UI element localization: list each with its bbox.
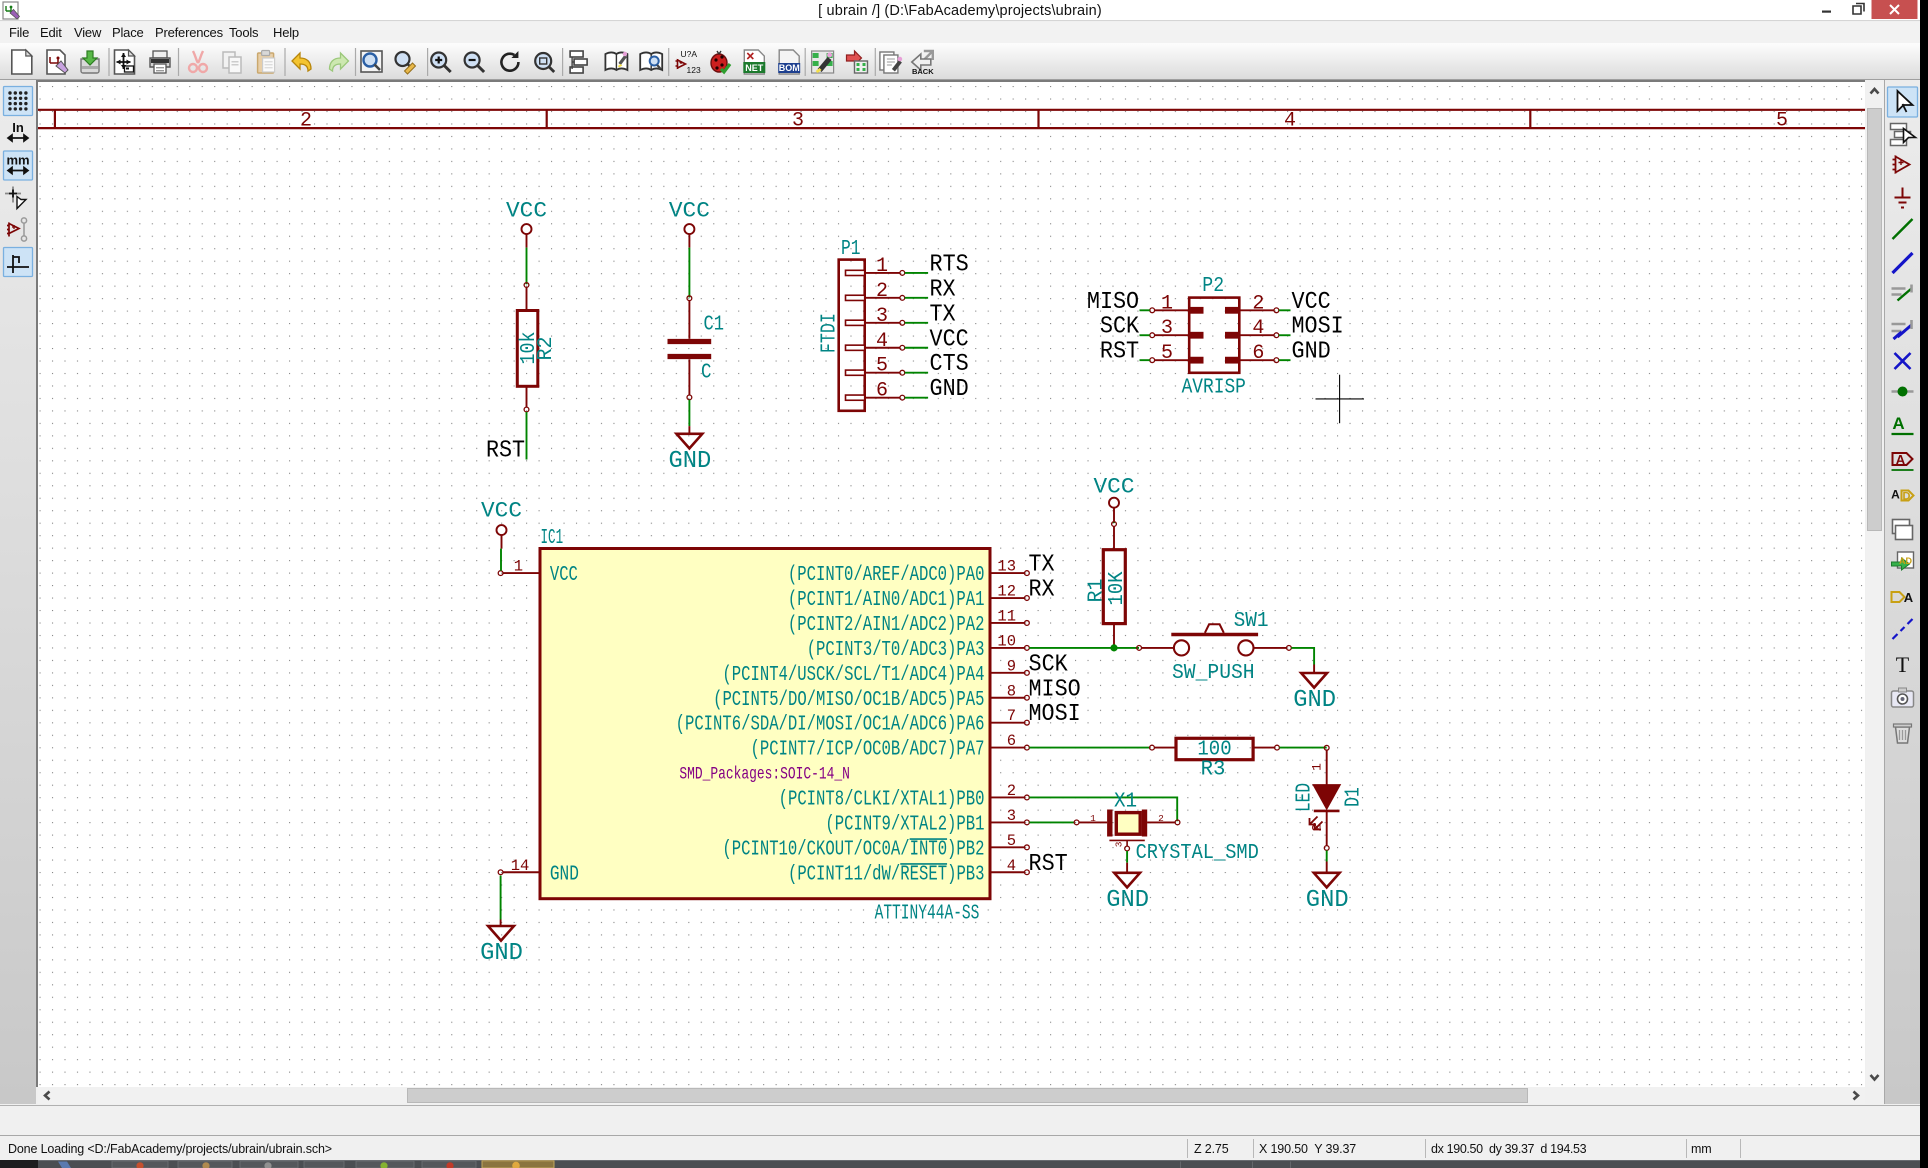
svg-text:1: 1: [514, 558, 523, 576]
svg-text:CTS: CTS: [930, 351, 969, 378]
svg-text:A: A: [1904, 590, 1914, 605]
IC U1 ATTINY44A-SS (IC1): [540, 527, 990, 925]
svg-text:VCC: VCC: [550, 564, 578, 587]
wire P2 pin 4: [1279, 334, 1291, 336]
wire R3 to LED D1: [1279, 747, 1326, 749]
IC1 pin 11: [788, 607, 1029, 637]
svg-text:LED: LED: [1294, 783, 1317, 812]
svg-text:1: 1: [876, 255, 888, 278]
ground symbol (IC1): [480, 920, 523, 968]
wire VCC to R1: [1113, 521, 1115, 523]
svg-text:VCC: VCC: [930, 326, 969, 353]
svg-text:4: 4: [1252, 317, 1264, 340]
svg-text:4: 4: [876, 330, 888, 353]
svg-text:P2: P2: [1202, 275, 1224, 298]
ruler section numbers 2 3 4 5: [300, 110, 1788, 133]
svg-text:BOM: BOM: [779, 63, 800, 73]
wire P1 pin 1: [905, 272, 928, 274]
capacitor C1: [668, 296, 725, 400]
svg-text:X1: X1: [1114, 791, 1137, 814]
junction (R1/SW1 net): [1110, 644, 1117, 651]
crystal X1 CRYSTAL_SMD: [1074, 791, 1259, 866]
wire IC1 pin 14 to GND: [500, 876, 502, 920]
svg-text:NET: NET: [745, 63, 764, 73]
svg-text:2: 2: [1007, 782, 1016, 800]
svg-text:SCK: SCK: [1029, 651, 1068, 678]
IC1 pin 6: [751, 732, 1030, 762]
power symbol VCC (at R2): [506, 198, 547, 248]
IC1 pin 1 VCC: [498, 558, 578, 588]
svg-text:MISO: MISO: [1087, 289, 1139, 316]
svg-text:6: 6: [1007, 732, 1016, 750]
IC1 pin 7: [676, 707, 1030, 737]
wire P2 pin 1: [1140, 309, 1150, 311]
svg-text:5: 5: [1776, 110, 1788, 133]
IC1 pin 5: [722, 832, 1029, 862]
resistor R1 10K: [1086, 522, 1129, 648]
wire P2 pin 2: [1279, 309, 1291, 311]
svg-text:AD: AD: [1899, 556, 1912, 566]
IC1 pin 4: [788, 857, 1029, 887]
ground symbol (C1): [669, 426, 712, 475]
svg-text:12: 12: [997, 583, 1016, 601]
svg-text:TX: TX: [1029, 552, 1055, 579]
svg-text:D: D: [1903, 491, 1911, 503]
power symbol VCC (at IC1): [481, 498, 522, 549]
svg-text:14: 14: [511, 857, 530, 875]
svg-text:MOSI: MOSI: [1029, 701, 1081, 728]
svg-text:9: 9: [1007, 657, 1016, 675]
wire IC1 pin 6 to R3: [1029, 747, 1149, 749]
svg-text:5: 5: [876, 355, 888, 378]
svg-text:SMD_Packages:SOIC-14_N: SMD_Packages:SOIC-14_N: [679, 765, 850, 785]
svg-text:BACK: BACK: [912, 67, 934, 76]
svg-text:IC1: IC1: [541, 527, 564, 550]
svg-text:In: In: [12, 120, 24, 135]
svg-text:123: 123: [687, 65, 701, 75]
svg-text:1: 1: [1161, 292, 1173, 315]
switch SW1 SW_PUSH: [1137, 610, 1292, 685]
svg-text:MISO: MISO: [1029, 676, 1081, 703]
IC1 pin 3: [825, 807, 1029, 837]
svg-text:VCC: VCC: [1292, 289, 1331, 316]
power symbol VCC (at C1): [669, 198, 710, 248]
IC1 pin 13: [788, 558, 1029, 588]
resistor R2 10k: [517, 283, 558, 412]
svg-text:4: 4: [1007, 857, 1016, 875]
svg-text:(PCINT11/dW/: (PCINT11/dW/: [788, 863, 900, 886]
ground symbol (SW1): [1293, 665, 1336, 715]
sheet frame top border: [38, 110, 1865, 128]
svg-text:2: 2: [300, 110, 312, 133]
svg-text:(PCINT2/AIN1/ADC2)PA2: (PCINT2/AIN1/ADC2)PA2: [788, 614, 985, 637]
svg-text:A: A: [1892, 414, 1904, 433]
svg-text:RST: RST: [1029, 851, 1068, 878]
wire SW1 to GND: [1291, 648, 1314, 665]
svg-text:SCK: SCK: [1100, 314, 1139, 341]
wire P1 pin 4: [905, 347, 928, 349]
IC1 pin 10: [807, 632, 1030, 662]
svg-text:13: 13: [997, 558, 1016, 576]
wire P2 pin 3: [1140, 334, 1150, 336]
svg-text:TX: TX: [930, 301, 956, 328]
svg-text:GND: GND: [1306, 887, 1349, 914]
resistor R3 100: [1150, 738, 1280, 781]
wire IC1 pin 10 to SW1: [1029, 647, 1139, 649]
svg-text:6: 6: [1252, 342, 1264, 365]
svg-text:11: 11: [997, 607, 1016, 625]
svg-text:RST: RST: [486, 438, 525, 465]
svg-text:VCC: VCC: [481, 498, 522, 524]
svg-text:VCC: VCC: [506, 198, 547, 224]
svg-text:(PCINT8/CLKI/XTAL1)PB0: (PCINT8/CLKI/XTAL1)PB0: [779, 788, 985, 811]
wire IC1 pin 3 to X1: [1029, 821, 1074, 823]
svg-text:U?A: U?A: [681, 49, 698, 59]
svg-text:R3: R3: [1201, 758, 1226, 781]
svg-text:AVRISP: AVRISP: [1182, 376, 1246, 399]
svg-text:10: 10: [997, 632, 1016, 650]
svg-text:(PCINT9/XTAL2)PB1: (PCINT9/XTAL2)PB1: [825, 813, 984, 836]
svg-text:(PCINT10/CKOUT/OC0A/INT0)PB2: (PCINT10/CKOUT/OC0A/INT0)PB2: [722, 838, 984, 861]
connector P2 AVRISP: [1150, 275, 1279, 399]
svg-text:ATTINY44A-SS: ATTINY44A-SS: [875, 903, 980, 926]
svg-text:GND: GND: [1106, 887, 1149, 914]
IC1 pin 12: [788, 583, 1029, 613]
wire LED to GND: [1326, 850, 1328, 861]
power symbol VCC (at R1): [1094, 473, 1135, 521]
wire IC1 pin 2 to X1: [1029, 797, 1177, 821]
svg-text:R2: R2: [535, 337, 558, 361]
wire P1 pin 3: [905, 322, 928, 324]
svg-text:mm: mm: [6, 153, 29, 168]
svg-text:C: C: [701, 362, 712, 385]
svg-text:C1: C1: [704, 314, 725, 337]
svg-text:(PCINT6/SDA/DI/MOSI/OC1A/ADC6): (PCINT6/SDA/DI/MOSI/OC1A/ADC6)PA6: [676, 714, 985, 737]
svg-text:RST: RST: [1100, 339, 1139, 366]
svg-text:)PB3: )PB3: [947, 863, 984, 886]
wire X1 to GND: [1126, 851, 1128, 863]
svg-text:1: 1: [1310, 763, 1325, 771]
wire P2 pin 6: [1279, 359, 1291, 361]
svg-text:7: 7: [1007, 707, 1016, 725]
ground symbol (X1): [1106, 863, 1149, 914]
wire VCC to C1: [688, 248, 690, 298]
svg-text:P1: P1: [841, 238, 861, 261]
wire P1 pin 6: [905, 397, 928, 399]
svg-text:A: A: [1896, 452, 1906, 467]
svg-text:GND: GND: [1292, 339, 1331, 366]
svg-text:3: 3: [876, 305, 888, 328]
svg-text:3: 3: [1114, 841, 1125, 847]
wire P1 pin 5: [905, 372, 928, 374]
LED D1: [1294, 745, 1366, 850]
svg-text:(PCINT7/ICP/OC0B/ADC7)PA7: (PCINT7/ICP/OC0B/ADC7)PA7: [751, 739, 985, 762]
wire P1 pin 2: [905, 297, 928, 299]
svg-text:5: 5: [1007, 832, 1016, 850]
ground symbol (LED): [1306, 862, 1349, 914]
svg-text:5: 5: [1161, 342, 1173, 365]
svg-text:RESET: RESET: [900, 863, 947, 886]
svg-text:(PCINT3/T0/ADC3)PA3: (PCINT3/T0/ADC3)PA3: [807, 639, 985, 662]
IC1 pin 9: [722, 657, 1029, 687]
svg-text:MOSI: MOSI: [1292, 314, 1344, 341]
connector P1 FTDI: [819, 238, 905, 411]
svg-text:SW_PUSH: SW_PUSH: [1172, 662, 1255, 685]
svg-text:8: 8: [1007, 682, 1016, 700]
wire C1 to GND: [688, 400, 690, 426]
svg-text:GND: GND: [669, 448, 712, 475]
svg-text:(PCINT4/USCK/SCL/T1/ADC4)PA4: (PCINT4/USCK/SCL/T1/ADC4)PA4: [722, 664, 984, 687]
wire R2 to RST: [526, 412, 528, 460]
wire P2 pin 5: [1140, 359, 1150, 361]
svg-text:3: 3: [792, 110, 804, 133]
svg-text:6: 6: [876, 380, 888, 403]
svg-text:RX: RX: [930, 276, 956, 303]
svg-text:GND: GND: [930, 376, 969, 403]
svg-text:2: 2: [1158, 813, 1164, 824]
svg-text:GND: GND: [480, 940, 523, 967]
wire VCC to IC1 pin 1: [500, 549, 502, 571]
svg-text:3: 3: [1007, 807, 1016, 825]
svg-text:T: T: [1896, 652, 1910, 677]
svg-text:(PCINT1/AIN0/ADC1)PA1: (PCINT1/AIN0/ADC1)PA1: [788, 589, 985, 612]
svg-text:GND: GND: [550, 863, 579, 886]
IC1 pin 8: [713, 682, 1029, 712]
IC1 pin 14 GND: [498, 857, 579, 887]
svg-text:4: 4: [1284, 110, 1296, 133]
svg-text:2: 2: [1252, 292, 1264, 315]
svg-text:RTS: RTS: [930, 251, 969, 278]
svg-text:GND: GND: [1293, 687, 1336, 714]
wire VCC to R2: [526, 248, 528, 285]
svg-text:(PCINT0/AREF/ADC0)PA0: (PCINT0/AREF/ADC0)PA0: [788, 564, 985, 587]
svg-text:D1: D1: [1342, 787, 1365, 807]
cursor crosshair: [1316, 375, 1365, 424]
svg-text:1: 1: [1090, 813, 1096, 824]
svg-text:3: 3: [1161, 317, 1173, 340]
svg-text:VCC: VCC: [669, 198, 710, 224]
svg-text:RX: RX: [1029, 577, 1055, 604]
svg-text:CRYSTAL_SMD: CRYSTAL_SMD: [1136, 842, 1259, 865]
svg-text:VCC: VCC: [1094, 473, 1135, 499]
svg-text:(PCINT5/DO/MISO/OC1B/ADC5)PA5: (PCINT5/DO/MISO/OC1B/ADC5)PA5: [713, 689, 984, 712]
IC1 pin 2: [779, 782, 1030, 812]
svg-text:SW1: SW1: [1234, 610, 1269, 633]
svg-text:10K: 10K: [1106, 571, 1129, 605]
svg-text:2: 2: [876, 280, 888, 303]
svg-text:A: A: [1891, 488, 1900, 502]
